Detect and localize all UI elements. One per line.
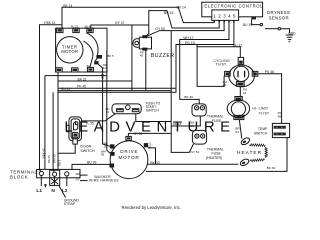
timer terminal bottom 2 [72,68,78,72]
wire cycling bottom to hi-limit top [239,86,241,96]
timer cam arc [84,33,99,57]
timer terminal top 3 [87,28,93,32]
wire hi-limit bottom to heater lug [239,120,242,139]
push-to-start right slot [132,109,139,112]
wire YL 52 stub [148,148,156,164]
svg-text:TH'ST: TH'ST [259,112,270,116]
terminal N [53,172,57,176]
svg-text:GY 47: GY 47 [115,21,125,25]
svg-text:24: 24 [243,91,247,95]
wire GY 50 (control terminal 3 to buzzer top) [146,20,224,36]
svg-text:RD 18: RD 18 [185,41,195,45]
svg-text:(HEATER): (HEATER) [206,156,222,160]
label BU 39 [87,161,97,165]
svg-text:BU 39: BU 39 [87,161,97,165]
label BK 56 [190,121,195,128]
label THERMAL FUSE (HEATER) [206,147,224,159]
washer harness RD stub [80,174,88,176]
label PU 26 [223,80,227,87]
wire GY 51 (motor top terminal to vertical) [128,133,171,136]
svg-text:SWITCH: SWITCH [80,149,95,153]
svg-text:GND: GND [288,32,296,36]
buzzer top terminal [142,35,147,38]
label BK 34 [106,107,110,114]
wire WH 17 (control terminal 4 down to thermal fuse) [180,20,229,104]
control terminal stubs [214,20,234,22]
wire BR 15 (control terminal 2 to buzzer top) [146,11,219,37]
svg-text:BR 15: BR 15 [164,11,174,15]
svg-text:BK 25: BK 25 [47,155,51,163]
timer terminal top labels [71,25,91,29]
control connector box [212,10,239,21]
terminal L1 [39,171,43,175]
terminal L2 [65,172,69,176]
wire BK 14 (control terminal 1 to timer) [62,7,214,28]
buzzer bottom terminal [142,48,147,51]
label DRYNESS SENSOR [267,10,290,21]
label THERMAL FUSE [207,115,224,123]
label PK 45 buzzer [140,50,145,57]
control right terminal [251,17,256,20]
label RD 18 lower [173,122,182,126]
heater element [249,144,267,162]
motor top terminal [126,136,131,140]
cycling thermostat left terminal [225,71,231,76]
ground strap pointer [59,185,66,197]
wire timer to motor WH 38 [107,51,110,154]
wire BU 44 [58,90,171,92]
label BK 30 [184,95,193,99]
svg-text:N: N [51,188,55,194]
cycling thermostat right terminal [252,71,258,76]
wire RD 18 (control terminal 5, long run left at y=92) [58,20,234,92]
label BR 53 [235,127,240,134]
label GROUND STRAP [64,198,80,206]
timer terminal top 2 [73,28,79,32]
wire BU 39 (motor to terminal block L2) [72,164,112,169]
cycling thermostat inner contacts [238,71,245,77]
label BK 14 right [177,5,186,9]
svg-text:FUSE: FUSE [212,119,222,123]
drive motor text [118,149,139,160]
label L2 [62,188,68,194]
label BK 14 left [63,4,72,8]
svg-text:38: 38 [101,153,105,157]
motor left terminal [110,152,114,156]
svg-text:GY: GY [76,177,80,181]
wire thermal fuse bottom to vertical [171,116,200,126]
label DOOR SWITCH [80,145,95,154]
svg-text:MOTOR: MOTOR [61,49,78,54]
label BR 15 [164,11,174,15]
svg-text:YL 35: YL 35 [85,122,93,126]
wire cabinet line left [45,76,107,170]
svg-text:DRYNESS: DRYNESS [267,10,290,15]
svg-text:WH 17: WH 17 [183,36,193,40]
door switch left bump [67,125,70,131]
push-to-start plunger [126,105,131,110]
svg-text:MOTOR: MOTOR [118,155,139,160]
push-to-start left slot [117,109,124,112]
label Y/BK 43 [44,21,56,25]
wire BU 11 branch to cycling thermostat top [197,47,240,58]
timer contact A [96,55,102,59]
svg-text:SWITCH: SWITCH [146,108,160,112]
wire PK 45 [58,87,176,89]
label BU 11 [233,43,242,47]
label TEMP SWITCH [254,127,268,135]
svg-text:BU 4: BU 4 [85,25,91,29]
thermal fuse heater contacts [195,134,205,138]
wire Y/BK 43 (timer to terminal block L1) [40,25,63,172]
svg-text:Y/BK 43: Y/BK 43 [44,21,56,25]
svg-text:RD 5: RD 5 [57,159,61,166]
svg-text:34: 34 [106,110,110,114]
terminal block [37,169,80,177]
label YL 35 [85,122,93,126]
timer motor circle [57,37,83,63]
label RD 24 [243,88,247,95]
label BK 23 [78,77,87,81]
svg-text:HI- LIMIT: HI- LIMIT [252,107,268,111]
label GY 51 [134,132,143,136]
label BUZZER [151,53,175,59]
svg-text:BK 14: BK 14 [63,4,72,8]
svg-text:Rendered by LeadVenture, Inc.: Rendered by LeadVenture, Inc. [122,205,181,210]
motor right terminal [144,143,148,147]
wire door switch left to N [53,92,54,172]
label GY 50 [155,27,165,31]
svg-text:BU 11: BU 11 [233,43,242,47]
label HI-LIMIT TH'ST [252,107,269,116]
label GND [288,32,296,36]
terminal block N sub-box / ground strap [50,170,60,185]
wire timer terminal 1 bottom down to block [57,72,59,170]
wire long vertical to thermal fuse heater [171,31,193,153]
dryness sensor switch contact right [265,28,290,34]
svg-text:BK 30: BK 30 [184,95,193,99]
svg-text:ELECTRONIC CONTROL: ELECTRONIC CONTROL [204,3,263,8]
svg-text:BUZZER: BUZZER [151,53,175,59]
wire timer to motor RD 10 [103,68,110,147]
svg-text:48: 48 [278,114,282,118]
dryness sensor switch contact left [260,23,262,25]
svg-text:PK 48: PK 48 [265,70,274,74]
timer contact labels [87,54,114,79]
motor bottom left terminal [110,164,115,168]
door switch plunger [73,122,77,130]
heater bottom lug [239,158,250,167]
svg-text:RD: RD [76,172,80,176]
svg-text:BLOCK: BLOCK [10,175,28,180]
timer terminal top 1 [57,28,63,32]
wire BU 19 (control to dryness sensor) [252,19,261,24]
door switch lower contact [72,132,78,137]
label HEATER [237,150,262,156]
timer box [56,28,107,72]
control connector digits 1 2 3 4 5 [213,14,237,19]
label BU 19 [243,23,252,27]
svg-text:WH 39: WH 39 [52,154,56,163]
wire buzzer bottom down [145,49,147,91]
door switch bottom stub [73,139,77,144]
svg-text:GY 51: GY 51 [134,132,143,136]
wire GY 47 (timer top to buzzer junction) [91,25,149,28]
svg-text:53: 53 [235,130,239,134]
svg-text:10: 10 [104,144,108,148]
svg-text:HEATER: HEATER [237,150,262,156]
label L1 [36,188,42,194]
svg-text:PK 45: PK 45 [77,84,86,88]
timer contact B [94,61,98,64]
push-to-start switch body [112,104,141,114]
washer harness GY stub [80,180,88,182]
svg-text:SWITCH: SWITCH [254,132,268,136]
door switch inner [71,119,80,139]
wire push-to-start right to vertical [136,112,171,122]
hi-limit top terminal [235,97,242,101]
label GY 47 [115,21,125,25]
label PUSH TO START SWITCH [146,102,161,113]
label PK 48 [265,70,274,74]
cycling thermostat bottom terminal [236,82,244,87]
timer terminal bottom 1 [56,68,62,72]
svg-text:BK 5: BK 5 [108,54,115,58]
wire BK 23 [58,80,132,82]
timer terminal bottom 3 [87,67,93,71]
svg-text:BK 32: BK 32 [267,166,276,170]
svg-text:BK 23: BK 23 [78,77,87,81]
wire cycling thermostat left leg [197,45,224,87]
ground [286,35,293,42]
timer contact diagonals [90,57,103,68]
label ELECTRONIC CONTROL [204,3,263,8]
motor left upper terminal [110,144,115,148]
wire PK 48 (cycling right to temp switch) [258,74,282,124]
svg-text:L1: L1 [36,188,42,194]
label WASHER WIRE HARNESS [89,175,119,183]
temp switch box [272,123,289,137]
label BK 32 [267,166,276,170]
thermal fuse upper body [192,104,206,116]
heater top lug [240,137,251,147]
label BK 33 [150,161,159,165]
svg-text:12345: 12345 [213,14,237,19]
motor labels [101,141,152,156]
drive motor circle [110,141,148,179]
svg-text:56: 56 [190,124,194,128]
wire BK 32 bottom bus to temp switch [146,138,287,172]
terminal stubs below [41,176,67,186]
label PK 48 vertical [278,111,283,118]
svg-text:TEMP: TEMP [258,127,268,131]
cycling thermostat top terminal [238,57,243,64]
svg-text:PU 22: PU 22 [71,25,79,29]
wire vertical at buzzer junction [131,25,133,91]
buzzer circle [133,39,142,48]
svg-text:52: 52 [148,145,152,149]
svg-text:SENSOR: SENSOR [269,16,289,21]
wire door switch bottom to block [58,143,75,153]
timer motor text [61,44,78,54]
label N [51,188,55,194]
svg-text:WIRE HARNESS: WIRE HARNESS [89,178,119,182]
svg-text:Y/BK 43: Y/BK 43 [41,148,45,159]
label CYCLING TH'ST [213,59,230,67]
svg-text:BU 44: BU 44 [61,87,70,91]
svg-text:TH'ST: TH'ST [216,63,227,67]
wire BK 33 (motor to heater) [147,163,239,165]
hi-limit thermostat body [227,100,249,117]
svg-text:DRIVE: DRIVE [120,149,138,154]
wire door switch right / push-to-start diagonal [82,112,118,121]
label WH 17 [183,36,193,40]
label GY 51 second [191,150,200,154]
small ground mark [44,184,47,187]
svg-text:STRAP: STRAP [64,202,76,206]
svg-text:DOOR: DOOR [80,145,91,149]
svg-text:BU 19: BU 19 [243,23,252,27]
label TERMINAL BLOCK [10,170,38,180]
label PK 45 [77,84,86,88]
watermark [64,119,235,136]
svg-text:26: 26 [223,83,227,87]
label BU 44 [61,87,70,91]
rendered by [122,205,181,210]
door switch outer [69,117,82,141]
thermal fuse upper contacts [195,106,205,110]
label RD 18 [185,41,195,45]
svg-text:RD 18: RD 18 [173,122,182,126]
buzzer body [139,37,151,49]
svg-text:GY 51: GY 51 [191,150,200,154]
temp switch terminal strips [274,126,286,136]
cycling thermostat body [229,65,255,87]
rotated wire labels above terminal block [41,148,61,166]
svg-text:BU: BU [87,64,91,68]
thermal fuse heater body [192,130,206,144]
svg-text:GY 50: GY 50 [155,27,165,31]
hi-limit bottom terminal [234,115,244,119]
svg-text:BK 14: BK 14 [177,5,186,9]
electronic control box [202,2,263,17]
svg-text:45: 45 [140,54,144,58]
